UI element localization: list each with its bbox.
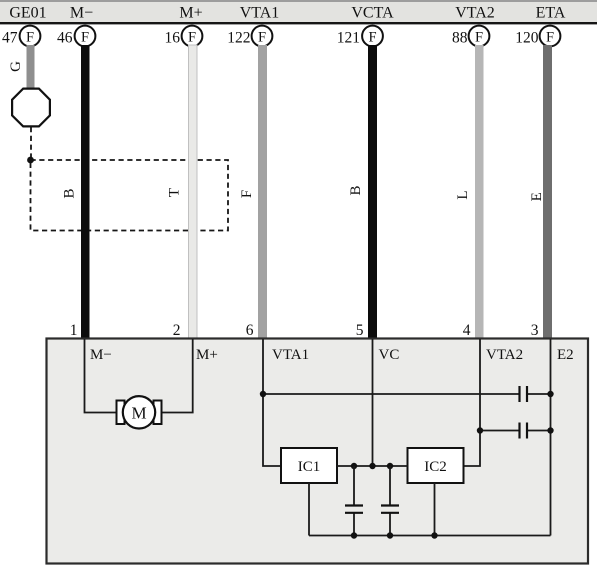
svg-text:5: 5 <box>356 322 364 339</box>
svg-text:F: F <box>368 30 376 46</box>
svg-text:E: E <box>529 192 545 201</box>
junction C4 top <box>387 463 393 469</box>
wire B (VCTA) <box>368 45 377 339</box>
wire IC1 to IC2 <box>337 465 408 467</box>
connector terminal F (VCTA) <box>362 26 383 47</box>
svg-text:F: F <box>475 30 483 46</box>
svg-text:T: T <box>167 188 183 197</box>
wire IC2 ground lead <box>434 483 436 536</box>
svg-text:IC2: IC2 <box>424 459 447 475</box>
motor brush right <box>154 401 162 425</box>
svg-text:ETA: ETA <box>536 5 566 22</box>
wire pin6 VTA1 lead <box>263 339 281 466</box>
wire C4 vertical <box>389 466 391 536</box>
svg-text:47: 47 <box>2 30 18 47</box>
svg-text:IC1: IC1 <box>298 459 321 475</box>
motor brush left <box>117 401 125 425</box>
junction C3 bottom <box>351 532 357 538</box>
svg-text:F: F <box>239 190 255 198</box>
IC1 <box>281 448 337 483</box>
wire pin3 E2 lead <box>550 339 552 536</box>
connector terminal F (VTA2) <box>469 26 490 47</box>
svg-text:1: 1 <box>70 322 78 339</box>
svg-text:122: 122 <box>227 30 250 47</box>
wire C3 vertical <box>353 466 355 536</box>
wire VTA1 to C1 to E2 <box>263 393 551 395</box>
svg-text:F: F <box>546 30 554 46</box>
wire E (ETA) <box>543 45 552 339</box>
svg-text:M−: M− <box>70 5 93 22</box>
connector terminal F (M-) <box>75 26 96 47</box>
header separator line <box>0 22 597 24</box>
svg-text:M+: M+ <box>196 347 218 363</box>
capacitor C3 plates <box>345 506 363 513</box>
svg-text:VTA2: VTA2 <box>486 347 523 363</box>
junction C4 bottom <box>387 532 393 538</box>
wire B (M-) <box>81 45 90 339</box>
svg-text:E2: E2 <box>557 347 574 363</box>
svg-text:88: 88 <box>452 30 468 47</box>
svg-text:4: 4 <box>463 322 471 339</box>
junction dot (shield to box) <box>27 157 34 164</box>
junction VC bottom <box>369 463 375 469</box>
svg-text:B: B <box>62 188 78 198</box>
svg-text:VC: VC <box>379 347 400 363</box>
svg-text:F: F <box>81 30 89 46</box>
svg-text:VCTA: VCTA <box>351 5 394 22</box>
junction IC2 ground <box>431 532 437 538</box>
wire pin1 lead to motor <box>85 339 118 413</box>
svg-text:F: F <box>258 30 266 46</box>
wire bottom ground bus <box>309 535 551 537</box>
svg-text:120: 120 <box>515 30 539 47</box>
svg-text:B: B <box>348 185 364 195</box>
junction VTA1/wire1 <box>260 391 266 397</box>
svg-text:VTA2: VTA2 <box>455 5 495 22</box>
connector terminal F (VTA1) <box>252 26 273 47</box>
svg-text:M−: M− <box>90 347 112 363</box>
wire G (GE01) <box>27 45 35 89</box>
wire pin5 VC lead <box>372 339 374 466</box>
header band top edge <box>0 0 597 2</box>
shield drain dashed wire <box>30 127 32 160</box>
svg-text:F: F <box>26 30 34 46</box>
svg-text:G: G <box>8 61 24 72</box>
svg-text:16: 16 <box>165 30 181 47</box>
capacitor C2 plates <box>520 423 528 439</box>
svg-text:2: 2 <box>173 322 181 339</box>
svg-text:6: 6 <box>246 322 254 339</box>
connector terminal F (GE01) <box>20 26 41 47</box>
svg-text:46: 46 <box>57 30 73 47</box>
wire VTA2 to C2 to E2 <box>480 430 551 432</box>
capacitor C1 plates <box>520 386 528 402</box>
svg-text:M: M <box>131 404 146 423</box>
svg-text:M+: M+ <box>179 5 202 22</box>
connector terminal F (M+) <box>182 26 203 47</box>
header band <box>0 0 597 23</box>
motor M <box>123 396 155 428</box>
connector terminal F (ETA) <box>540 26 561 47</box>
throttle body unit box <box>47 339 589 564</box>
IC2 <box>408 448 464 483</box>
svg-text:F: F <box>188 30 196 46</box>
svg-text:L: L <box>455 190 471 199</box>
wire IC1 ground lead <box>308 483 310 536</box>
wire motor to pin2 lead <box>161 339 193 413</box>
svg-text:GE01: GE01 <box>9 5 46 22</box>
wire L (VTA2) <box>475 45 484 339</box>
svg-text:VTA1: VTA1 <box>272 347 309 363</box>
junction E2/wire1 <box>547 391 553 397</box>
junction VTA2/wire2 <box>477 427 483 433</box>
wire pin4 VTA2 lead <box>464 339 481 466</box>
wire F (VTA1) <box>258 45 267 339</box>
junction C3 top <box>351 463 357 469</box>
wire T (M+) <box>189 45 198 339</box>
svg-text:121: 121 <box>337 30 360 47</box>
junction E2/wire2 <box>547 427 553 433</box>
svg-text:3: 3 <box>531 322 539 339</box>
shield ground octagon <box>12 89 50 127</box>
shielded cable dashed box <box>31 160 229 231</box>
svg-text:VTA1: VTA1 <box>240 5 280 22</box>
capacitor C4 plates <box>381 506 399 513</box>
